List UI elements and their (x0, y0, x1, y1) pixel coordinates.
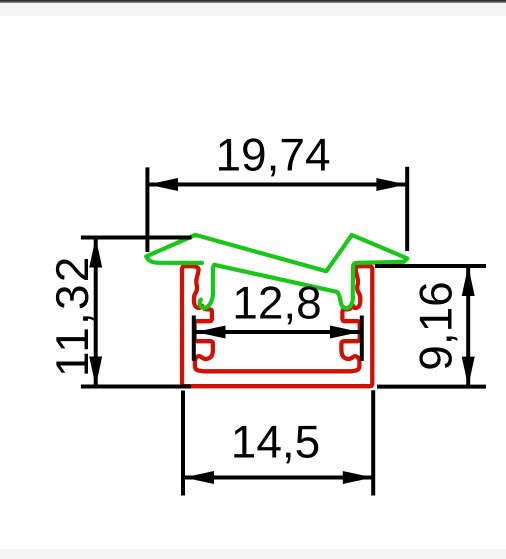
dim 11,32 arrow top (89, 238, 102, 268)
svg-text:12,8: 12,8 (232, 277, 322, 329)
dim 14,5 extension line left (181, 391, 185, 496)
dim 11,32 arrow bottom (89, 357, 102, 387)
dim 9,16 extension line bottom (377, 385, 486, 389)
svg-text:14,5: 14,5 (231, 416, 321, 468)
dim 19,74 arrow left (148, 178, 178, 191)
aluminium profile body (red outline) (182, 266, 372, 386)
dim 19,74 extension line left (145, 167, 149, 252)
dim 12,8 arrow left (196, 326, 226, 339)
dim 12,8 extension line right (360, 316, 364, 362)
dim 9,16 extension line top (375, 264, 486, 268)
svg-text:11,32: 11,32 (46, 254, 98, 377)
dim 19,74 line (148, 183, 406, 187)
dim 12,8 line (196, 330, 361, 334)
dim 11,32 extension line top (81, 236, 192, 240)
dim 12,8 extension line left (192, 316, 196, 361)
bottom light-gray strip (0, 549, 506, 559)
svg-text:9,16: 9,16 (410, 281, 462, 371)
dim 19,74 extension line right (405, 167, 409, 251)
dim 11,32 line (94, 238, 98, 387)
dim 14,5 extension line right (371, 390, 375, 495)
dim 9,16 arrow top (462, 266, 475, 296)
dim 11,32 extension line bottom (81, 385, 191, 389)
dim 9,16 arrow bottom (462, 357, 475, 387)
svg-text:19,74: 19,74 (215, 129, 330, 181)
dim 14,5 arrow left (184, 471, 214, 484)
dim 19,74 arrow right (376, 178, 406, 191)
dim 9,16 line (466, 266, 470, 387)
dim 14,5 arrow right (343, 471, 373, 484)
top light-gray strip (0, 3, 506, 16)
dim 12,8 arrow right (330, 326, 360, 339)
diffuser cover (green outline) (146, 235, 407, 308)
dim 14,5 line (184, 476, 373, 480)
